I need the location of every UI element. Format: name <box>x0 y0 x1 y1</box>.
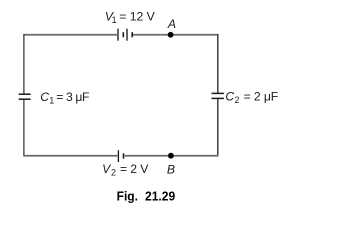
wire: bottom-left segment to battery V2 <box>23 155 117 157</box>
capacitor C1 <box>19 94 31 99</box>
wire: left side lower (C1 to bottom corner) <box>23 100 25 157</box>
wire: top segment battery V1 to right corner <box>133 34 218 36</box>
wire: top-left segment to battery V1 <box>23 34 117 36</box>
wire: right side lower (C2 to bottom corner) <box>217 99 219 156</box>
wire: right side upper (corner to C2) <box>217 34 219 93</box>
node B <box>168 153 174 159</box>
svg-text:B: B <box>167 162 175 176</box>
wire: bottom segment battery V2 to right corner <box>125 155 219 157</box>
node A <box>168 32 174 38</box>
svg-text:A: A <box>167 17 176 31</box>
svg-text:V1= 12 V: V1= 12 V <box>105 10 156 26</box>
svg-text:V2= 2 V: V2= 2 V <box>102 162 149 178</box>
wire: left side upper (corner to C1) <box>23 34 25 94</box>
svg-text:C1= 3 μF: C1= 3 μF <box>40 90 89 105</box>
svg-text:Fig. 21.29: Fig. 21.29 <box>117 189 176 204</box>
svg-text:C2= 2 μF: C2= 2 μF <box>225 90 278 105</box>
battery V2 (single cell) <box>118 150 123 162</box>
battery V1 (two cells) <box>118 29 132 41</box>
capacitor C2 <box>212 93 224 98</box>
